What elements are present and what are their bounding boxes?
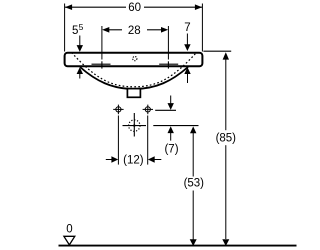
fixing hole left bbox=[117, 105, 119, 115]
fixing hole extension line left bbox=[117, 116, 119, 165]
svg-text:60: 60 bbox=[128, 2, 141, 14]
overflow hole (dotted circle on rim) bbox=[133, 57, 137, 61]
dimension 7v arrow down bbox=[170, 96, 172, 104]
dimension 60 arrow right bbox=[195, 4, 202, 10]
dimension (12) arrow left bbox=[106, 159, 112, 161]
dimension 5.5 arrow up to rim bottom bbox=[77, 67, 83, 74]
tap hole centerline right bbox=[159, 63, 178, 65]
dimension 28 extension line left bbox=[101, 26, 103, 60]
dimension 60 arrow left bbox=[65, 4, 72, 10]
dimension 60 extension line right bbox=[201, 4, 203, 52]
drain stub bbox=[127, 89, 140, 98]
floor line bbox=[59, 245, 297, 247]
drain outlet center dot bbox=[133, 124, 135, 126]
fixing hole right bbox=[147, 105, 149, 115]
svg-text:(53): (53) bbox=[184, 178, 205, 190]
zero level triangle bbox=[64, 236, 75, 245]
washbasin rim (side view) bbox=[65, 53, 203, 67]
svg-text:5: 5 bbox=[79, 22, 84, 32]
svg-text:28: 28 bbox=[128, 25, 141, 37]
dimension (85) line bbox=[223, 52, 229, 59]
svg-text:(85): (85) bbox=[216, 132, 237, 144]
svg-text:(12): (12) bbox=[123, 154, 144, 166]
dimension 28 arrow right bbox=[161, 27, 168, 33]
dimension 28 line bbox=[108, 29, 122, 31]
drain outlet (dotted circle) bbox=[129, 120, 140, 131]
rim level reference line bbox=[203, 50, 231, 52]
svg-text:0: 0 bbox=[66, 224, 72, 236]
drain level reference line bbox=[153, 125, 198, 127]
drain outlet centerlines bbox=[133, 113, 135, 137]
hidden bowl outline (dashed) bbox=[72, 53, 197, 87]
dimension (53) line bbox=[190, 126, 196, 133]
bowl outline (solid) bbox=[80, 67, 188, 89]
dimension 60 extension line left bbox=[64, 4, 66, 52]
fixing hole extension line right bbox=[147, 116, 149, 165]
svg-text:7: 7 bbox=[184, 22, 190, 34]
svg-text:5: 5 bbox=[72, 25, 78, 37]
dimension 60 line bbox=[65, 6, 126, 8]
arrow up to rim bottom right bbox=[184, 67, 190, 74]
dimension 5.5 arrow down to rim top bbox=[79, 36, 81, 46]
dimension 7 arrow down to rim top bbox=[186, 34, 188, 45]
tap hole centerline left bbox=[92, 63, 111, 65]
dimension 28 arrow left bbox=[102, 27, 109, 33]
dimension (12) arrow right bbox=[148, 156, 155, 162]
fixing level reference line bbox=[155, 109, 176, 111]
dimension 7v arrow up bbox=[168, 126, 174, 133]
svg-text:(7): (7) bbox=[164, 144, 178, 156]
dimension 28 extension line right bbox=[167, 26, 169, 60]
